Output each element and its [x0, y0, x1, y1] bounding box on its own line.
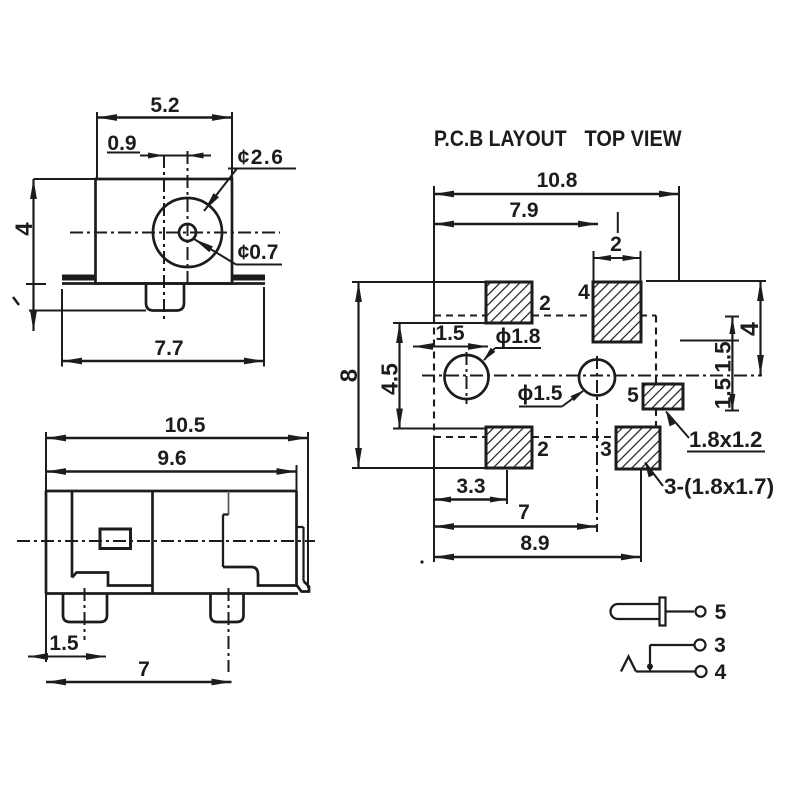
svg-text:¢2.6: ¢2.6 [238, 146, 285, 169]
svg-text:4: 4 [11, 222, 38, 236]
svg-text:2: 2 [610, 233, 622, 256]
svg-text:1.5: 1.5 [435, 322, 465, 345]
svg-text:ϕ1.8: ϕ1.8 [496, 325, 541, 348]
svg-text:2: 2 [539, 292, 551, 315]
svg-text:7.7: 7.7 [154, 337, 183, 360]
svg-text:1.5: 1.5 [711, 341, 736, 372]
svg-text:ϕ1.5: ϕ1.5 [518, 382, 563, 405]
svg-text:TOP VIEW: TOP VIEW [585, 126, 683, 151]
svg-text:3: 3 [600, 438, 612, 461]
svg-text:1.5: 1.5 [711, 378, 736, 409]
svg-text:7: 7 [138, 658, 150, 681]
svg-text:10.5: 10.5 [165, 414, 206, 437]
svg-text:8.9: 8.9 [520, 532, 549, 555]
svg-text:3.3: 3.3 [456, 475, 485, 498]
svg-text:1.5: 1.5 [49, 632, 79, 655]
svg-text:¢0.7: ¢0.7 [238, 241, 279, 264]
svg-text:2: 2 [537, 438, 549, 461]
svg-text:5: 5 [715, 601, 727, 624]
svg-text:7.9: 7.9 [509, 199, 538, 222]
svg-text:4: 4 [578, 281, 590, 304]
svg-text:4: 4 [736, 322, 764, 336]
svg-text:1.8x1.2: 1.8x1.2 [689, 427, 762, 452]
svg-text:4: 4 [715, 661, 727, 684]
svg-text:5: 5 [627, 384, 639, 407]
svg-text:9.6: 9.6 [157, 447, 186, 470]
svg-text:4.5: 4.5 [377, 363, 403, 395]
svg-text:3-(1.8x1.7): 3-(1.8x1.7) [664, 474, 774, 499]
svg-text:8: 8 [336, 369, 363, 382]
svg-text:P.C.B LAYOUT: P.C.B LAYOUT [434, 127, 567, 152]
svg-text:3: 3 [714, 634, 726, 657]
svg-text:5.2: 5.2 [150, 94, 179, 117]
svg-text:10.8: 10.8 [537, 169, 578, 192]
svg-text:7: 7 [518, 501, 530, 524]
